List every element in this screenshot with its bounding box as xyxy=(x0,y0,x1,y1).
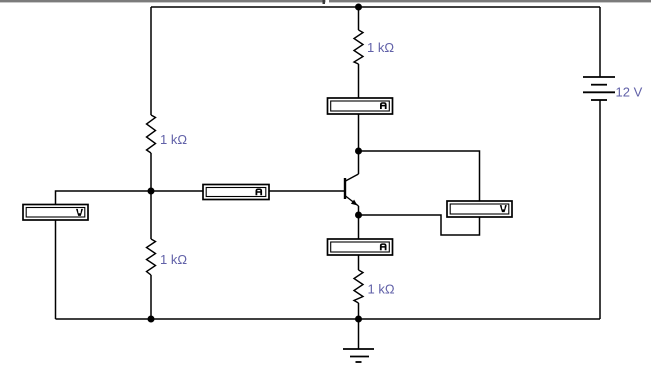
ammeter A2 (collector) xyxy=(328,98,393,114)
voltmeter V1 (left) xyxy=(23,205,88,221)
window top border (frame) xyxy=(0,0,651,2)
node bottom center junction xyxy=(355,316,362,323)
wire top rail xyxy=(151,6,600,8)
svg-text:1 kΩ: 1 kΩ xyxy=(368,282,395,297)
node emitter junction xyxy=(355,212,362,219)
resistor R4 1 kΩ (emitter) xyxy=(354,270,363,303)
svg-text:1 kΩ: 1 kΩ xyxy=(160,252,187,267)
node top junction xyxy=(355,4,362,11)
transistor Q1 (NPN) xyxy=(345,151,359,215)
svg-text:1 kΩ: 1 kΩ xyxy=(367,40,394,55)
battery V1 12V xyxy=(583,77,615,100)
ammeter A1 (base) xyxy=(203,185,269,200)
wire top node down xyxy=(358,7,360,30)
wire base node to ammeter A1 xyxy=(151,190,203,192)
wire R4 to bottom rail xyxy=(358,303,360,319)
wire ammeter A2 to collector node xyxy=(358,114,360,151)
wire R1 to base node xyxy=(150,153,152,191)
wire R3 to ammeter A2 xyxy=(358,64,360,98)
label R1 value 1 kΩ xyxy=(160,132,187,147)
resistor R2 1 kΩ (lower left) xyxy=(147,239,156,275)
wire collector to voltmeter V2 xyxy=(359,151,480,201)
wire voltmeter V1 top lead xyxy=(56,191,152,205)
label R2 value 1 kΩ xyxy=(160,252,187,267)
wire ammeter A3 to R4 xyxy=(358,255,360,270)
label R4 value 1 kΩ xyxy=(368,282,395,297)
wire ground lead xyxy=(358,319,360,349)
wire emitter node to ammeter A3 xyxy=(358,215,360,239)
wire battery top lead xyxy=(599,7,601,77)
wire left vertical upper xyxy=(150,7,152,115)
node collector junction xyxy=(355,148,362,155)
wire ammeter A1 to base xyxy=(269,190,345,192)
node bottom left junction xyxy=(148,316,155,323)
wire battery bottom lead xyxy=(599,100,601,319)
wire bottom rail xyxy=(56,318,601,320)
resistor R3 1 kΩ (collector) xyxy=(354,30,363,64)
wire voltmeter V2 bottom lead to emitter xyxy=(359,215,480,235)
svg-text:12 V: 12 V xyxy=(616,85,643,100)
voltmeter V2 (right) xyxy=(447,201,512,217)
label R3 value 1 kΩ xyxy=(367,40,394,55)
ammeter A3 (emitter) xyxy=(328,239,393,255)
resistor R1 1 kΩ (upper left) xyxy=(147,115,156,153)
svg-text:1 kΩ: 1 kΩ xyxy=(160,132,187,147)
ground xyxy=(343,349,374,362)
wire voltmeter V1 bottom lead xyxy=(55,220,57,319)
label battery value 12 V xyxy=(616,85,643,100)
wire R2 to bottom rail xyxy=(150,275,152,319)
wire base node to R2 xyxy=(150,191,152,239)
node base junction xyxy=(148,188,155,195)
